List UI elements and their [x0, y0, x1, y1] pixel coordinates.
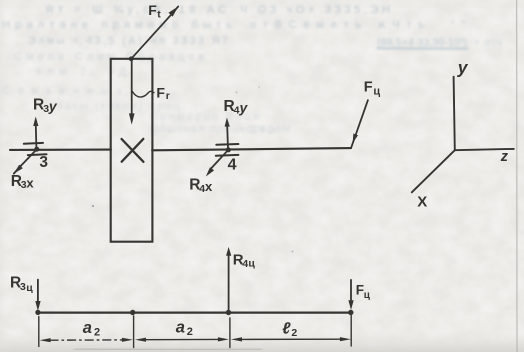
- svg-text:Клм 2, 3Д: Клм 2, 3Д: [36, 66, 127, 78]
- label R3x: [11, 173, 35, 191]
- svg-text:x: x: [205, 179, 213, 194]
- scan page right edge: [516, 0, 518, 352]
- svg-text:Связанных: Связанных: [2, 85, 123, 97]
- svg-text:a: a: [83, 319, 92, 337]
- node dot right support: [226, 310, 231, 315]
- stray pencil speck 1: [92, 205, 94, 207]
- reaction R3c arrow (down): [37, 280, 39, 301]
- axes: x axis: [412, 150, 455, 192]
- bleed-through handwriting (back of page): [2, 4, 465, 136]
- leader squiggle to Fr label: [132, 91, 154, 97]
- label 4: [228, 156, 237, 173]
- svg-text:F: F: [156, 84, 165, 100]
- node dot beam end: [348, 310, 353, 315]
- node dot gear position: [130, 310, 135, 315]
- svg-text:2: 2: [291, 327, 297, 339]
- bearing 4 upper stroke: [216, 143, 238, 146]
- dimension l2 segment: [242, 338, 340, 340]
- bearing 3 node dot: [34, 147, 39, 152]
- svg-text:4: 4: [228, 156, 237, 173]
- label Ft: [148, 2, 161, 20]
- node dot left support: [35, 310, 40, 315]
- stray pencil speck 3: [258, 86, 260, 88]
- label Fr: [156, 84, 169, 102]
- svg-text:t: t: [157, 8, 161, 20]
- axes: y axis: [454, 77, 455, 151]
- svg-text:ц: ц: [364, 290, 371, 301]
- dimension a2 first segment (dash-dot): [50, 339, 123, 341]
- svg-text:y: y: [48, 98, 58, 114]
- axes: z axis: [455, 149, 514, 150]
- label R3c: [10, 275, 33, 294]
- gear rectangle: [111, 59, 153, 242]
- svg-text:a: a: [176, 319, 185, 337]
- svg-text:y: y: [239, 99, 249, 115]
- svg-text:x: x: [26, 175, 34, 190]
- svg-text:ц: ц: [26, 282, 33, 294]
- node dot at gear top: [129, 56, 134, 61]
- bottom scan shadow streak: [74, 348, 262, 351]
- force Fc (upper) arrow: [351, 100, 368, 147]
- svg-text:r: r: [166, 90, 170, 102]
- label y axis: [457, 58, 469, 78]
- shaft line left segment: [10, 149, 111, 151]
- label x axis: [417, 194, 427, 211]
- reaction R4x arrow: [212, 150, 229, 168]
- reaction R4y arrow: [226, 126, 229, 149]
- X mark at gear centre: [122, 139, 144, 162]
- reaction R4c arrow (up): [228, 255, 230, 312]
- force Ft arrow: [131, 6, 178, 58]
- label a2 second: [176, 319, 193, 339]
- svg-text:ц: ц: [248, 258, 255, 270]
- extension line at left support: [38, 317, 40, 347]
- label a2 first: [83, 319, 100, 339]
- svg-text:2: 2: [187, 326, 193, 338]
- svg-text:X: X: [417, 194, 427, 211]
- stray pencil speck 4: [236, 92, 238, 94]
- label R4c: [233, 252, 256, 270]
- beam line: [38, 312, 351, 314]
- bleed formula with underline (strongest bleed fragment): [377, 37, 503, 49]
- label R3y: [33, 96, 58, 115]
- reaction R3y arrow: [35, 126, 38, 148]
- svg-text:2: 2: [94, 327, 100, 339]
- dimension a2 second segment: [146, 338, 218, 340]
- svg-text:(89,5×4·33,30·10³): (89,5×4·33,30·10³): [377, 37, 467, 49]
- extension line at gear position: [133, 316, 135, 348]
- label R4x: [189, 177, 213, 195]
- label z axis: [500, 149, 509, 165]
- shaft line right segment: [152, 148, 351, 150]
- svg-text:3: 3: [20, 281, 26, 293]
- bearing 4 lower stroke: [216, 154, 239, 157]
- extension line at right support: [229, 318, 231, 348]
- svg-text:y: y: [457, 58, 469, 78]
- force Fc (lower) arrow (down): [350, 280, 352, 300]
- label Fc lower: [356, 283, 371, 301]
- label R4y: [224, 98, 249, 116]
- svg-text:ℓ: ℓ: [282, 321, 291, 338]
- svg-text:Элмы = 43,5 (А) Чп 3333 Я7: Элмы = 43,5 (А) Чп 3333 Я7: [28, 35, 228, 47]
- bearing 4 node dot: [226, 147, 231, 152]
- svg-text:z: z: [500, 149, 509, 165]
- svg-text:ц: ц: [373, 85, 380, 97]
- reaction R3x arrow: [14, 149, 37, 173]
- bearing 3 upper stroke: [24, 142, 43, 145]
- bearing 3 lower stroke: [28, 153, 47, 156]
- label l2: [282, 321, 297, 340]
- svg-text:3: 3: [39, 154, 48, 171]
- label 3: [39, 154, 48, 171]
- svg-text:F: F: [148, 2, 157, 18]
- svg-text:F: F: [364, 79, 373, 95]
- force Fr arrow (vertical, down inside gear): [131, 60, 133, 114]
- extension line at beam end: [350, 316, 352, 347]
- svg-text:+ отч: + отч: [474, 37, 502, 49]
- label Fc upper: [364, 79, 381, 97]
- stray pencil speck 2: [292, 251, 294, 253]
